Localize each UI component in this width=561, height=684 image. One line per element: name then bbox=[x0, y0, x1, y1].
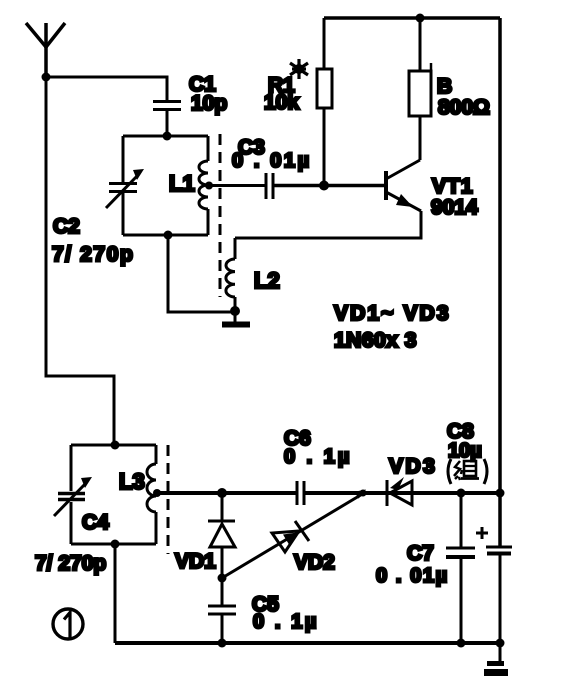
svg-text:7/ 270p: 7/ 270p bbox=[52, 243, 134, 266]
variable capacitor C2 bbox=[106, 169, 144, 208]
wire L1 tap to C3 bbox=[208, 184, 266, 187]
node L3 tap bbox=[153, 489, 161, 497]
svg-text:10p: 10p bbox=[191, 92, 227, 115]
diode VD2 bbox=[222, 493, 364, 578]
resistor R1 bbox=[317, 18, 332, 186]
node VD2 top junction bbox=[355, 490, 367, 499]
svg-text:L3: L3 bbox=[119, 469, 145, 494]
svg-text:VD2: VD2 bbox=[294, 551, 335, 574]
label C1 value bbox=[189, 73, 227, 115]
inductor L1 bbox=[199, 136, 208, 235]
node L1 tap bbox=[205, 182, 213, 190]
wire L1 bottom to L2 bottom bbox=[168, 235, 235, 312]
node C1 / L1 top bbox=[163, 132, 172, 141]
label B value bbox=[437, 75, 490, 119]
label C7 value bbox=[376, 542, 449, 587]
inductor L3 bbox=[147, 445, 156, 544]
label C4 value bbox=[35, 511, 109, 575]
svg-text:0 . 1µ: 0 . 1µ bbox=[253, 611, 319, 633]
label C3 value bbox=[232, 136, 312, 172]
wire C3 to base bbox=[273, 184, 386, 188]
svg-text:VD3: VD3 bbox=[389, 455, 437, 478]
label C8 value bbox=[447, 420, 482, 462]
label R1 value bbox=[264, 74, 299, 114]
svg-text:1N60x 3: 1N60x 3 bbox=[334, 329, 417, 352]
svg-text:9014: 9014 bbox=[431, 196, 478, 219]
diode VD3 bbox=[387, 477, 412, 506]
star mark (R1 adjustable) bbox=[290, 59, 308, 79]
node C7 bottom bbox=[457, 639, 466, 648]
svg-text:VD1: VD1 bbox=[175, 550, 216, 573]
svg-text:VD1~ VD3: VD1~ VD3 bbox=[334, 302, 451, 325]
svg-text:B: B bbox=[437, 75, 452, 98]
ferrite core dashed line (L1/L2 coupling) bbox=[219, 134, 222, 297]
capacitor C5 bbox=[208, 606, 236, 643]
node antenna junction bbox=[42, 73, 51, 82]
node R1 bottom junction bbox=[319, 181, 329, 191]
capacitor C3 bbox=[266, 173, 273, 199]
kanji (組) in C8 label bbox=[448, 459, 487, 484]
svg-text:800Ω: 800Ω bbox=[438, 96, 490, 119]
wire detector line bbox=[156, 491, 500, 495]
ground (bottom right) bbox=[484, 643, 508, 673]
transistor VT1 bbox=[235, 160, 421, 238]
node C8 bottom bbox=[496, 639, 505, 648]
label C5 value bbox=[252, 593, 319, 633]
svg-text:10µ: 10µ bbox=[448, 440, 482, 462]
node C5 bottom bbox=[218, 639, 227, 648]
node L1 bottom bbox=[164, 231, 173, 240]
capacitor C1 bbox=[153, 102, 181, 137]
antenna bbox=[26, 23, 65, 77]
inductor L2 bbox=[226, 238, 235, 311]
wire left tank riser bbox=[111, 441, 120, 450]
wire right rail bbox=[498, 18, 502, 547]
node C7 top bbox=[457, 489, 466, 498]
svg-text:0 . 01µ: 0 . 01µ bbox=[376, 565, 449, 587]
node B top bbox=[416, 14, 425, 23]
capacitor C8 electrolytic bbox=[476, 527, 512, 643]
capacitor C6 bbox=[297, 481, 304, 505]
label C6 value bbox=[284, 427, 352, 468]
svg-text:VT1: VT1 bbox=[432, 175, 474, 198]
svg-text:10k: 10k bbox=[264, 91, 299, 114]
wire L1 box bottom bbox=[123, 234, 208, 237]
label VD1~VD3 note bbox=[334, 302, 451, 352]
svg-text:0 . 01µ: 0 . 01µ bbox=[232, 150, 312, 172]
capacitor C7 bbox=[446, 493, 475, 643]
svg-text:0 . 1µ: 0 . 1µ bbox=[284, 446, 352, 468]
wire L3 box left bbox=[70, 445, 73, 544]
wire L3 bottom to rail bbox=[114, 544, 117, 643]
svg-text:C4: C4 bbox=[82, 511, 109, 534]
wire antenna to C1 top bbox=[46, 77, 167, 101]
node L3 bottom bbox=[111, 540, 120, 549]
wire L1 box left bbox=[122, 136, 125, 235]
ground (L2) bbox=[222, 311, 250, 325]
wire left rail down to L3 bbox=[46, 77, 114, 443]
svg-text:C7: C7 bbox=[407, 542, 434, 565]
svg-text:C2: C2 bbox=[53, 215, 80, 238]
variable capacitor C4 bbox=[54, 477, 92, 516]
wire L3 box top bbox=[71, 444, 156, 447]
node VD1 top bbox=[217, 488, 227, 498]
svg-text:L1: L1 bbox=[169, 171, 195, 196]
node VD2 bottom junction bbox=[218, 574, 227, 583]
wire L1 box top bbox=[123, 135, 208, 138]
ferrite rod dashed line (L3) bbox=[167, 445, 170, 554]
node C8 top bbox=[496, 489, 505, 498]
wire L3 box bottom bbox=[71, 543, 156, 546]
svg-text:7/ 270p: 7/ 270p bbox=[35, 552, 106, 575]
wire top rail bbox=[324, 16, 500, 20]
svg-text:L2: L2 bbox=[254, 268, 280, 293]
diode VD1 bbox=[208, 493, 235, 605]
node L2 bottom bbox=[230, 306, 240, 316]
wire bottom rail bbox=[115, 641, 500, 645]
figure number 1 bbox=[53, 609, 83, 639]
label C2 value bbox=[52, 215, 134, 266]
label VT1 bbox=[431, 175, 478, 219]
earphone B bbox=[409, 18, 431, 160]
